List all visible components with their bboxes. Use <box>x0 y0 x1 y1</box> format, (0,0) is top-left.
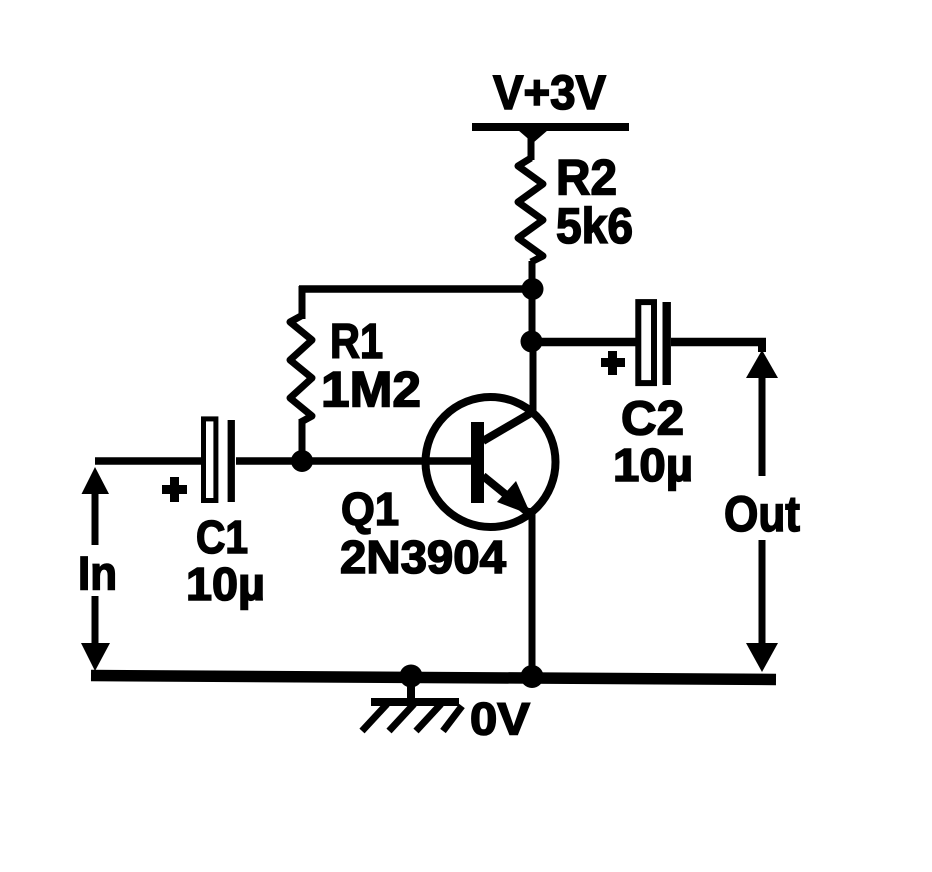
plus sign C1 <box>162 477 187 502</box>
svg-text:C2: C2 <box>621 393 684 446</box>
wire R2 top lead <box>528 131 535 160</box>
svg-text:0V: 0V <box>470 694 530 745</box>
ground <box>362 676 462 731</box>
resistor R2 <box>518 158 543 262</box>
svg-text:V+3V: V+3V <box>493 67 606 120</box>
svg-text:10µ: 10µ <box>186 558 265 610</box>
wire output corner down <box>758 339 766 352</box>
plus sign C2 <box>601 351 625 375</box>
capacitor C2 <box>638 302 671 385</box>
node junction R1/R2 <box>522 278 544 300</box>
svg-text:In: In <box>78 547 117 600</box>
wire input right segment to base <box>236 457 474 465</box>
transistor Q1 <box>426 397 556 527</box>
node junction emitter-rail <box>521 665 544 688</box>
svg-text:1M2: 1M2 <box>321 362 421 418</box>
wire R1 top lead <box>299 286 306 319</box>
wire output left segment <box>532 338 637 347</box>
svg-text:Q1: Q1 <box>341 483 399 535</box>
wire collector vertical <box>530 340 537 413</box>
svg-text:2N3904: 2N3904 <box>340 531 506 583</box>
node junction output <box>521 331 543 353</box>
In arrow lower <box>81 596 110 671</box>
Out arrow lower <box>746 540 778 672</box>
node junction base <box>291 450 313 472</box>
power rail connection triangle <box>518 130 548 143</box>
wire top horizontal R1 to R2 node <box>299 285 532 293</box>
wire output right segment <box>671 338 766 347</box>
power rail V+ bar <box>472 123 629 131</box>
Out arrow upper <box>746 350 778 476</box>
In arrow upper <box>82 467 110 545</box>
wire R2 bottom to collector node <box>529 261 536 345</box>
svg-text:Out: Out <box>724 486 800 542</box>
wire input left segment <box>95 457 202 465</box>
bottom rail 0V <box>91 676 776 680</box>
svg-text:5k6: 5k6 <box>556 198 633 254</box>
node junction ground-rail <box>400 665 423 688</box>
resistor R1 <box>290 316 312 422</box>
svg-text:C1: C1 <box>196 511 248 563</box>
svg-text:10µ: 10µ <box>613 439 693 491</box>
wire emitter vertical <box>529 508 536 678</box>
capacitor C1 <box>204 419 235 502</box>
wire R1 bottom lead <box>299 419 306 461</box>
